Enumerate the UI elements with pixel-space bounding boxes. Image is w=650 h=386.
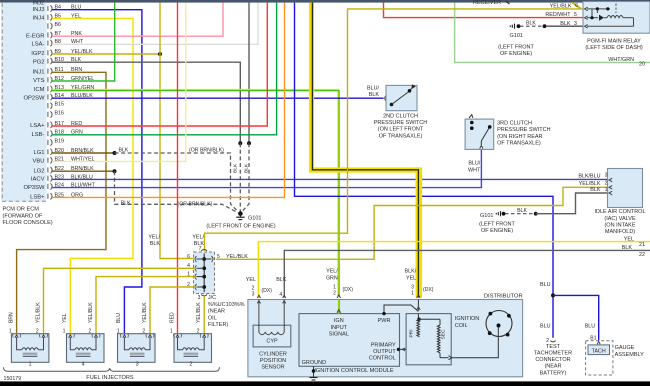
label G101 right location	[479, 221, 515, 234]
svg-text:RECEIVER: RECEIVER	[473, 0, 501, 6]
svg-text:2: 2	[546, 338, 549, 344]
label pin 4	[279, 292, 282, 298]
svg-text:YEL: YEL	[624, 236, 634, 242]
label BLU lower left	[540, 324, 551, 330]
svg-text:LSA-: LSA-	[32, 42, 45, 48]
3rd clutch switch contacts	[469, 115, 492, 149]
svg-text:YEL/: YEL/	[326, 269, 338, 275]
svg-text:LSB-: LSB-	[32, 132, 45, 138]
svg-text:BLK: BLK	[560, 21, 571, 27]
svg-text:4: 4	[82, 362, 85, 368]
svg-text:4: 4	[279, 292, 282, 298]
injector 2 wire labels	[169, 302, 202, 323]
svg-text:YEL/: YEL/	[192, 234, 204, 240]
svg-text:GRN: GRN	[326, 275, 338, 281]
svg-text:INJ4: INJ4	[33, 16, 46, 22]
svg-text:(ON INTAKE: (ON INTAKE	[604, 222, 635, 228]
svg-text:RED/WHT: RED/WHT	[545, 12, 571, 18]
svg-text:(LEFT FRONT OF ENGINE): (LEFT FRONT OF ENGINE)	[206, 224, 275, 230]
svg-text:BLK: BLK	[369, 92, 380, 98]
label CYP pins 2 3 DX	[252, 286, 273, 298]
svg-text:OIL: OIL	[208, 315, 217, 321]
svg-text:5: 5	[217, 254, 220, 260]
wire YEL/BLK vertical to J/C pin 6	[160, 3, 196, 259]
svg-text:CONTROL: CONTROL	[369, 356, 396, 362]
svg-text:VBU: VBU	[33, 159, 45, 165]
svg-text:BLK: BLK	[194, 241, 205, 247]
wire YEL from CYP to right edge (21)	[258, 242, 650, 298]
test tach connector pin	[546, 338, 556, 344]
injector 2	[170, 328, 212, 367]
CYP pin chevrons	[257, 295, 285, 303]
svg-text:3RD CLUTCH: 3RD CLUTCH	[497, 121, 532, 127]
injector 1 wire labels	[8, 302, 41, 323]
svg-text:OP2SW: OP2SW	[23, 95, 45, 101]
distributor box	[248, 300, 523, 377]
junction BLK top	[247, 141, 251, 145]
J/C box	[194, 252, 215, 294]
wire B17 RED to top	[52, 3, 267, 126]
svg-text:IGP2: IGP2	[31, 51, 44, 57]
pin B23 BLK/BLU	[31, 174, 93, 182]
svg-text:CONNECTOR: CONNECTOR	[535, 357, 570, 363]
svg-text:ICM: ICM	[34, 87, 45, 93]
label CYP	[266, 339, 278, 345]
svg-text:6: 6	[575, 3, 578, 9]
svg-text:BLK: BLK	[150, 241, 161, 247]
wire BLK IAC pin1 to G101	[536, 193, 608, 214]
svg-text:(DX): (DX)	[262, 288, 273, 294]
injector 4 wire labels	[62, 302, 94, 323]
pin B15 (nc)	[48, 102, 64, 109]
svg-text:BLK: BLK	[233, 163, 239, 173]
svg-text:BLU: BLU	[116, 313, 122, 323]
svg-text:TACH: TACH	[592, 348, 606, 354]
svg-text:INPUT: INPUT	[331, 325, 348, 331]
PCM label	[3, 207, 53, 227]
label BLK rotated 1	[233, 163, 239, 173]
wire BLK from ICM pin4 to right edge (22)	[284, 250, 650, 297]
svg-text:BLK/BLU: BLK/BLU	[578, 174, 600, 180]
label BLK/YEL at coil	[405, 269, 417, 282]
wire coil secondary to distributor cap	[452, 327, 498, 358]
ignition coil windings	[409, 314, 452, 360]
svg-text:BLK: BLK	[517, 208, 527, 214]
label G101 top	[510, 33, 523, 39]
label BLK 1	[590, 187, 607, 193]
ICM ign input wire	[337, 295, 341, 314]
svg-text:GROUND: GROUND	[302, 360, 326, 366]
svg-text:BLU/: BLU/	[367, 85, 379, 91]
svg-text:CYLINDER: CYLINDER	[259, 351, 287, 357]
svg-text:(OR BRN/BLK): (OR BRN/BLK)	[189, 147, 224, 153]
svg-text:B16: B16	[55, 111, 64, 117]
wire BLK dashed 2 to G101	[242, 143, 249, 211]
pin B9 YEL/BLK	[31, 49, 93, 57]
svg-text:FUEL INJECTORS: FUEL INJECTORS	[86, 375, 134, 381]
TACH box	[588, 345, 610, 355]
pin B22 BRN/BLK	[33, 166, 94, 174]
svg-text:(OR BRN/BLK): (OR BRN/BLK)	[178, 202, 213, 208]
wire J/C pin4 to injector1 pin2	[44, 268, 197, 333]
svg-text:IGNITION CONTROL MODULE: IGNITION CONTROL MODULE	[314, 368, 394, 374]
top page edge bar	[0, 0, 650, 3]
svg-text:PWR: PWR	[378, 318, 391, 324]
svg-text:G101: G101	[480, 213, 493, 219]
pin B20 BRN/BLK	[33, 148, 94, 156]
svg-text:DISTRIBUTOR: DISTRIBUTOR	[484, 294, 523, 300]
svg-text:3: 3	[605, 173, 608, 179]
svg-text:3: 3	[198, 295, 201, 301]
svg-text:ASSEMBLY: ASSEMBLY	[615, 352, 645, 358]
wire RED from top to injector 2 pin 1	[177, 3, 179, 333]
svg-text:TEST: TEST	[546, 344, 561, 350]
wire WHT/GRN from top to right edge	[455, 3, 650, 63]
POC wire	[397, 337, 420, 351]
wire BLK/YEL thick pair to ignition coil	[312, 3, 419, 298]
label (OR BRN/BLK) 2	[178, 202, 213, 208]
label G101 center	[248, 216, 261, 222]
svg-text:1: 1	[170, 328, 173, 334]
pin B18 GRN	[32, 130, 83, 138]
label 150179	[4, 376, 22, 382]
wire BLU from top to tachometer junction	[295, 3, 554, 338]
label PWR	[378, 318, 391, 324]
svg-text:VTS: VTS	[33, 78, 44, 84]
wire BLK dashed to G101	[239, 143, 241, 212]
label G101 top location	[498, 44, 534, 57]
injector 4	[63, 328, 104, 367]
svg-text:B15: B15	[55, 102, 64, 108]
2nd clutch pressure switch box	[386, 85, 417, 110]
label YEL/BLK at relay	[550, 3, 572, 9]
label BLK at B20	[119, 147, 129, 153]
svg-text:2: 2	[333, 290, 336, 296]
junction B20	[113, 151, 117, 155]
svg-text:(IAC) VALVE: (IAC) VALVE	[604, 216, 636, 222]
PGM-FI main relay box	[583, 2, 650, 34]
svg-text:2: 2	[88, 328, 91, 334]
svg-text:WHT: WHT	[468, 167, 481, 173]
pin B8 WHT	[32, 39, 84, 47]
svg-text:BLU: BLU	[540, 282, 551, 288]
svg-text:BLK: BLK	[622, 245, 633, 251]
svg-text:LG1: LG1	[33, 150, 44, 156]
svg-text:BLU: BLU	[540, 324, 551, 330]
coil wire entry	[417, 295, 421, 311]
wire BLU branch to gauge tach	[553, 295, 599, 340]
ignition coil box	[406, 314, 451, 365]
svg-text:1: 1	[117, 328, 120, 334]
label gauge assembly	[615, 345, 645, 358]
svg-text:FLOOR CONSOLE): FLOOR CONSOLE)	[3, 220, 53, 226]
clipped row INJ2	[33, 0, 44, 6]
svg-text:PCM OR ECM: PCM OR ECM	[3, 207, 40, 213]
label 2nd clutch switch	[374, 114, 428, 140]
svg-text:(LEFT FRONT: (LEFT FRONT	[479, 221, 515, 227]
label B1	[590, 336, 596, 342]
svg-text:MANIFOLD): MANIFOLD)	[605, 229, 635, 235]
junction B10 BLK	[238, 141, 242, 145]
svg-text:3: 3	[574, 21, 577, 27]
pin B7 PNK	[26, 31, 82, 39]
svg-text:OUTPUT: OUTPUT	[373, 349, 396, 355]
distributor cap circle	[486, 311, 512, 337]
svg-text:YEL/BLK: YEL/BLK	[142, 302, 148, 323]
svg-text:CYP: CYP	[266, 339, 278, 345]
svg-text:OF TRANSAXLE): OF TRANSAXLE)	[497, 140, 541, 146]
label YEL/BLK 2	[579, 181, 608, 188]
svg-text:INJ2: INJ2	[33, 0, 44, 6]
wire BLK(OR BRN/BLK) dashed to G101	[115, 153, 239, 212]
svg-text:LSB+: LSB+	[30, 195, 45, 201]
svg-text:E-EGR: E-EGR	[26, 33, 44, 39]
bottom black bar	[0, 381, 650, 386]
svg-text:BLU/: BLU/	[468, 161, 480, 167]
wire B22 BRN/BLK	[52, 170, 115, 172]
svg-text:1: 1	[411, 290, 414, 296]
label BLK 22	[622, 245, 645, 258]
svg-text:3: 3	[136, 362, 139, 368]
svg-text:BLK: BLK	[244, 163, 250, 173]
J/C pin arrows	[195, 250, 213, 297]
label BLK at ICM pin4	[276, 277, 287, 283]
junction B9/YEL-BLK	[158, 52, 162, 56]
J/C internal bus	[197, 254, 212, 293]
pin B4 BLU	[33, 5, 82, 13]
svg-text:SENSOR: SENSOR	[261, 365, 284, 371]
svg-text:GAUGE: GAUGE	[615, 345, 635, 351]
pin B19 (nc)	[48, 139, 64, 146]
svg-text:(NEAR: (NEAR	[544, 364, 561, 370]
wire B9 YEL/BLK	[52, 53, 160, 55]
svg-text:G101: G101	[248, 216, 261, 222]
label pin 20	[639, 61, 645, 67]
wire YEL/BLK diagonal from top edge	[572, 3, 581, 9]
svg-text:YEL/: YEL/	[148, 234, 160, 240]
svg-text:6: 6	[187, 254, 190, 260]
svg-text:IDLE AIR CONTROL: IDLE AIR CONTROL	[594, 209, 645, 215]
injector 1	[9, 328, 49, 367]
label J/C name	[208, 295, 245, 328]
wire B7 PNK to top	[52, 3, 223, 37]
svg-text:BRN: BRN	[8, 312, 14, 323]
pin B16 (nc)	[48, 111, 64, 118]
svg-text:PRIMARY: PRIMARY	[371, 342, 396, 348]
3rd clutch pressure switch box	[465, 119, 494, 149]
label 3rd clutch switch	[497, 121, 551, 147]
wire BLK dashed below B22	[115, 171, 239, 213]
svg-text:1: 1	[605, 187, 608, 193]
wire B25 ORG to top	[52, 3, 285, 198]
svg-text:G101: G101	[510, 33, 523, 39]
pin B25 ORG	[30, 192, 83, 200]
svg-text:2: 2	[189, 362, 192, 368]
wire B14 BLU/BLK to 2nd clutch switch	[52, 97, 384, 99]
svg-text:YEL/BLK: YEL/BLK	[88, 302, 94, 323]
ignition control module inner box	[299, 314, 400, 367]
svg-text:2: 2	[197, 328, 200, 334]
svg-text:(LEFT FRONT: (LEFT FRONT	[498, 44, 534, 50]
label BLU/WHT	[468, 161, 481, 174]
svg-text:BLK/: BLK/	[405, 269, 417, 275]
svg-text:(LEFT SIDE OF DASH): (LEFT SIDE OF DASH)	[585, 45, 643, 51]
injector 3 wire labels	[116, 302, 148, 323]
svg-text:OF ENGINE): OF ENGINE)	[500, 51, 532, 57]
svg-text:150179: 150179	[4, 376, 22, 382]
label pin 6	[575, 3, 578, 9]
pin B5 YEL	[33, 13, 82, 21]
wire B24 BLU/WHT to 3rd clutch switch	[52, 149, 481, 187]
label DISTRIBUTOR	[484, 294, 523, 300]
wire J/C pin2 to injector3 pin2	[150, 287, 196, 333]
label FUEL INJECTORS	[86, 375, 134, 381]
svg-text:(NEAR: (NEAR	[208, 309, 225, 315]
wire BLK from top	[248, 3, 250, 144]
label RECEIVER	[473, 0, 510, 6]
ground G101 (center, left front of engine)	[236, 211, 244, 219]
svg-text:LSA+: LSA+	[30, 123, 45, 129]
injector 3	[117, 328, 155, 367]
svg-text:BLK: BLK	[526, 21, 536, 27]
pin B13 YEL/GRN	[34, 85, 95, 93]
svg-text:YEL/BLK: YEL/BLK	[196, 302, 202, 323]
gauge assembly dashed box	[586, 341, 613, 375]
svg-text:5: 5	[574, 12, 577, 18]
label YEL/BLK jc7 wire	[192, 234, 204, 247]
pin B24 BLU/WHT	[23, 183, 95, 191]
ground G101 (right, near IAC)	[480, 208, 538, 219]
pin B14 BLU/BLK	[23, 93, 93, 101]
svg-text:PRESSURE SWITCH: PRESSURE SWITCH	[374, 120, 428, 126]
wire B10 BLK	[52, 62, 240, 143]
IAC valve box	[608, 169, 643, 208]
label YEL 21	[624, 236, 645, 248]
svg-text:YEL: YEL	[406, 275, 416, 281]
wire J/C pin3 to injector2 pin2	[203, 296, 205, 333]
svg-text:1: 1	[63, 328, 66, 334]
IAC pin arrows	[609, 178, 612, 195]
label BLK rotated 2	[244, 163, 250, 173]
svg-text:(FORWARD OF: (FORWARD OF	[3, 213, 43, 219]
relay internals	[585, 4, 634, 29]
wire B21 WHT/YEL to top	[52, 3, 186, 162]
wire B5 YEL to injector 4 pin 1	[52, 18, 133, 333]
svg-text:3: 3	[252, 291, 255, 297]
label test tachometer	[534, 344, 572, 376]
svg-text:PGM-FI MAIN RELAY: PGM-FI MAIN RELAY	[587, 39, 641, 45]
svg-text:2: 2	[36, 328, 39, 334]
svg-text:YEL: YEL	[62, 313, 68, 323]
J/C pin numbers	[187, 246, 220, 301]
svg-text:IGN: IGN	[334, 318, 344, 324]
wire YEL/BLK relay pin6 to J/C pin 7	[205, 9, 583, 251]
svg-text:1: 1	[29, 362, 32, 368]
label WHT/GRN	[608, 57, 634, 63]
label (OR BRN/BLK) 1	[189, 147, 224, 153]
arrow into 2nd clutch switch	[385, 95, 387, 101]
label YEL/GRN at ICM	[326, 269, 338, 282]
svg-text:BLK: BLK	[276, 277, 287, 283]
svg-text:(ON LEFT FRONT: (ON LEFT FRONT	[378, 127, 424, 133]
label IGNITION COIL	[455, 316, 479, 329]
label IGN INPUT SIGNAL	[329, 318, 349, 337]
svg-text:22: 22	[639, 252, 645, 258]
svg-text:COIL: COIL	[455, 323, 468, 329]
svg-text:BLK: BLK	[590, 187, 601, 193]
svg-text:PG2: PG2	[33, 59, 45, 65]
svg-text:WHT/GRN: WHT/GRN	[608, 57, 634, 63]
pin B17 RED	[30, 121, 82, 129]
label G101 center location	[206, 224, 275, 230]
wire B18 GRN to top	[52, 3, 277, 135]
wire B11 BRN to injector 1 pin 1	[17, 72, 106, 333]
wire B23 BLK/BLU to IAC pin 3	[52, 178, 608, 180]
svg-text:(DX): (DX)	[423, 287, 434, 293]
junction BLU tach	[551, 293, 555, 297]
label PGM-FI main relay	[585, 39, 643, 52]
svg-text:2ND CLUTCH: 2ND CLUTCH	[383, 114, 418, 120]
label YEL at CYP	[246, 277, 256, 283]
svg-text:SEC: SEC	[441, 329, 447, 339]
PWR wire	[382, 305, 418, 315]
label GROUND	[302, 360, 326, 366]
label BLK at B22	[121, 201, 131, 207]
wire B12 GRN/YEL to top	[52, 3, 115, 81]
ground G101 (top right)	[510, 21, 582, 29]
label cylinder position sensor	[259, 351, 287, 370]
label IAC valve	[594, 209, 645, 235]
svg-text:B1: B1	[590, 336, 596, 342]
label YEL/BLK at pin5	[226, 254, 248, 260]
pin B12 GRN/YEL	[33, 76, 94, 84]
svg-text:B19: B19	[55, 139, 64, 145]
wire RED/WHT from top to relay pin 5	[384, 3, 583, 18]
svg-text:INJ3: INJ3	[33, 7, 45, 13]
CYP coil symbol	[259, 300, 284, 335]
svg-text:IACV: IACV	[31, 177, 45, 183]
wire B4 BLU to injector 3 pin 1	[52, 10, 142, 333]
label BLK 3	[560, 21, 577, 27]
svg-text:20: 20	[639, 61, 645, 67]
svg-text:B6: B6	[55, 22, 62, 28]
svg-text:IGNITION: IGNITION	[455, 316, 479, 322]
ICM ground wire	[310, 366, 318, 382]
wire B13 YEL/GRN to ICM ign input	[52, 90, 339, 297]
label RED/WHT 5	[545, 12, 577, 18]
pin B6 (nc)	[48, 22, 61, 29]
PCM/ECM connector block	[2, 3, 49, 202]
svg-text:OP3SW: OP3SW	[23, 185, 45, 191]
wire YEL/BLK J/C pin5 to IAC pin 2	[216, 187, 608, 259]
label IGNITION CONTROL MODULE	[314, 368, 394, 374]
svg-text:%%UC103%%: %%UC103%%	[208, 302, 245, 308]
wire B20 BRN/BLK	[52, 152, 115, 154]
svg-text:LG2: LG2	[33, 168, 44, 174]
svg-text:YEL/BLK: YEL/BLK	[226, 254, 248, 260]
svg-text:PRESSURE SWITCH: PRESSURE SWITCH	[497, 127, 551, 133]
CYP box	[253, 325, 291, 347]
svg-text:J/C: J/C	[208, 295, 216, 301]
2nd clutch switch contacts	[390, 84, 416, 106]
svg-text:2: 2	[142, 328, 145, 334]
svg-text:(ON RIGHT REAR: (ON RIGHT REAR	[497, 134, 542, 140]
label ICM pins 1 2 DX	[333, 285, 353, 297]
svg-text:2: 2	[605, 181, 608, 187]
svg-text:YEL/BLK: YEL/BLK	[550, 3, 572, 9]
svg-text:(DX): (DX)	[343, 287, 354, 293]
label YEL/BLK vert wire	[148, 234, 160, 247]
